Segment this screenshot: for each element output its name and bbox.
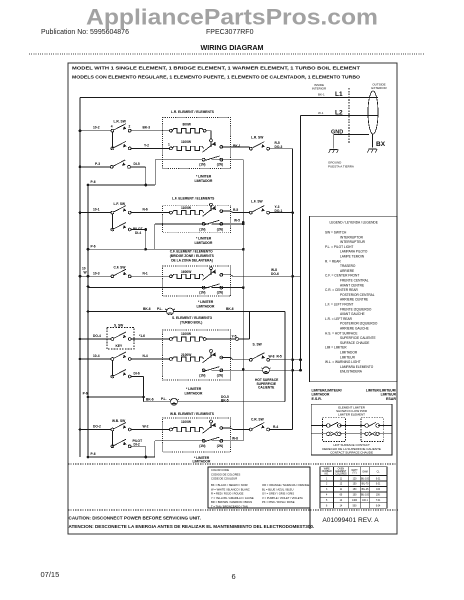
svg-text:INTERIOR: INTERIOR [312, 87, 327, 91]
terminal row1 right [203, 338, 206, 341]
svg-text:60: 60 [340, 495, 343, 497]
svg-text:LIMITADOR: LIMITADOR [197, 304, 215, 308]
svg-text:C.F. ELEMENT / ELEMENTO: C.F. ELEMENT / ELEMENTO [170, 249, 213, 253]
table column rules [334, 467, 370, 508]
terminal row1 [170, 275, 173, 278]
svg-text:W-2: W-2 [143, 425, 149, 429]
svg-text:BK = BLACK / NEGRO / NOIR: BK = BLACK / NEGRO / NOIR [211, 483, 248, 487]
svg-text:LIMITADOR: LIMITADOR [195, 179, 213, 183]
svg-text:5: 5 [326, 500, 328, 502]
svg-text:R-5: R-5 [277, 355, 282, 359]
svg-text:P-6: P-6 [91, 244, 96, 248]
svg-text:WIRING DIAGRAM: WIRING DIAGRAM [200, 43, 263, 52]
limiter L.F. [202, 203, 223, 225]
svg-text:N-4: N-4 [143, 354, 148, 358]
bus B P-6 vertical [87, 185, 89, 457]
svg-text:W.L. = WARNING LIGHT: W.L. = WARNING LIGHT [325, 360, 361, 364]
wire pilot row [144, 401, 286, 403]
svg-text:P.L. = PILOT LIGHT: P.L. = PILOT LIGHT [325, 245, 353, 249]
wire P-6 row [88, 248, 243, 250]
svg-text:CAUTION: DISCONNECT POWER BEFO: CAUTION: DISCONNECT POWER BEFORE SERVICI… [69, 516, 201, 521]
limiter sub-box right dashed [361, 418, 384, 442]
svg-text:14: 14 [340, 505, 343, 507]
svg-text:L.R. = LEFT REAR: L.R. = LEFT REAR [325, 317, 353, 321]
wire row3 [81, 166, 145, 168]
svg-text:(1N): (1N) [199, 228, 205, 232]
svg-text:500: 500 [353, 505, 358, 507]
svg-text:(2N): (2N) [217, 163, 223, 167]
switch pilot DI-5 [110, 160, 130, 168]
heating element 1600W [172, 274, 203, 278]
contact pair left bottom [327, 432, 341, 436]
svg-text:6: 6 [326, 505, 328, 507]
switch L.R. SW pole 2 [111, 141, 131, 149]
pilot light S. [169, 398, 178, 405]
switch L.F. SW [111, 206, 131, 214]
svg-text:CODIGO DE COLORES: CODIGO DE COLORES [211, 472, 240, 476]
svg-text:BK-6: BK-6 [226, 307, 234, 311]
SECTION: s5 [81, 412, 292, 464]
pilot light H.S. C.F. [165, 308, 174, 315]
svg-text:2: 2 [326, 484, 328, 486]
svg-text:100.1: 100.1 [362, 500, 368, 502]
bus limiter return vertical [242, 160, 244, 441]
svg-text:2100W: 2100W [181, 353, 192, 357]
SECTION: bottom [41, 508, 399, 581]
svg-text:SURFACE CHAUDE: SURFACE CHAUDE [340, 341, 369, 345]
svg-text:LIMITADOR: LIMITADOR [195, 241, 213, 245]
svg-text:BIL-70: BIL-70 [362, 484, 369, 486]
svg-text:COLOR CODE: COLOR CODE [211, 468, 229, 472]
wire row1 [81, 130, 169, 132]
svg-text:V = PURPLE / VIOLET / VIOLETA: V = PURPLE / VIOLET / VIOLETA [262, 496, 303, 500]
junction L2 bus H.S. row [299, 369, 302, 372]
wire top contact row [311, 425, 392, 427]
svg-text:OR = ORANGE / NARANJA / ORANGE: OR = ORANGE / NARANJA / ORANGE [262, 483, 309, 487]
svg-text:(2N): (2N) [217, 228, 223, 232]
svg-text:1100W: 1100W [181, 420, 192, 424]
wire limiter exit to bus [222, 275, 301, 277]
svg-text:W-1: W-1 [318, 111, 324, 115]
svg-text:*1-6: *1-6 [139, 334, 145, 338]
svg-text:BR = BROWN / MARRON / BRUN: BR = BROWN / MARRON / BRUN [211, 500, 252, 504]
svg-text:TRASERO: TRASERO [340, 264, 356, 268]
svg-text:12: 12 [340, 484, 343, 486]
SECTION: s4 [80, 312, 301, 406]
svg-text:7.01: 7.01 [376, 500, 381, 502]
bus A L1 vertical [79, 98, 81, 458]
svg-text:P-6: P-6 [91, 452, 96, 456]
heating element 2100W [172, 357, 203, 361]
svg-text:COLORES: COLORES [335, 473, 347, 475]
element box L.R. [163, 118, 231, 169]
svg-text:ENLISTADERA: ENLISTADERA [340, 370, 363, 374]
svg-text:MODEL WITH 1 SINGLE ELEMENT, 1: MODEL WITH 1 SINGLE ELEMENT, 1 BRIDGE EL… [72, 66, 360, 71]
svg-text:LIMITER ELEMENT: LIMITER ELEMENT [338, 413, 365, 417]
svg-text:GY = GREY / GRIS / GRIS: GY = GREY / GRIS / GRIS [262, 492, 294, 496]
svg-text:ARRIERE CENTRE: ARRIERE CENTRE [340, 298, 368, 302]
bus L.R. return vertical [292, 149, 294, 430]
svg-text:H.S. = HOT SURFACE: H.S. = HOT SURFACE [325, 331, 357, 335]
svg-text:1100W: 1100W [181, 206, 192, 210]
wire row1 into key [80, 338, 111, 340]
svg-text:A01099401 REV. A: A01099401 REV. A [322, 517, 379, 524]
svg-text:MODELS CON ELEMENTO REGULARE,: MODELS CON ELEMENTO REGULARE, 1 ELEMENTO… [72, 75, 361, 80]
terminal row1 [170, 211, 173, 214]
junction right bus [291, 275, 294, 278]
terminal row1 left [170, 129, 173, 132]
wire riser to pilot row [238, 312, 249, 340]
contact pair right top [365, 422, 380, 427]
svg-text:LIMITADOR: LIMITADOR [312, 392, 330, 396]
wire pilot row H.S. [88, 311, 285, 313]
svg-text:S. ELEMENT / ELEMENTO: S. ELEMENT / ELEMENTO [172, 316, 213, 320]
wire P-6 row [88, 456, 155, 458]
svg-text:R-4: R-4 [273, 425, 278, 429]
junction bus B node P-6 S4 [87, 396, 90, 399]
element box W.B. [163, 418, 231, 452]
switch L.F. right [249, 206, 269, 214]
svg-text:ATENCION: DESCONECTE LA ENERGI: ATENCION: DESCONECTE LA ENERGIA ANTES DE… [69, 524, 315, 529]
svg-text:R = RED / ROJO / ROUGE: R = RED / ROJO / ROUGE [211, 492, 244, 496]
wire limiter exit [222, 146, 250, 148]
svg-text:(2N): (2N) [217, 444, 223, 448]
svg-text:AppliancePartsPros.com: AppliancePartsPros.com [86, 5, 378, 30]
svg-text:BIL-100: BIL-100 [361, 478, 370, 480]
switch pilot DI-2 [111, 439, 131, 447]
svg-text:0.01: 0.01 [376, 484, 381, 486]
svg-text:LIMITEUR: LIMITEUR [381, 392, 397, 396]
junction L2 bus S. row [299, 358, 302, 361]
junction limiter bus S4 row [242, 368, 245, 371]
SECTION: limbox [311, 404, 392, 455]
svg-text:ARRIERE GAUCHE: ARRIERE GAUCHE [340, 327, 369, 331]
svg-text:EXTERIOR: EXTERIOR [371, 86, 387, 90]
svg-text:150: 150 [353, 484, 358, 486]
wire limiter bottom row [155, 159, 243, 161]
switch pilot DI-6 [111, 370, 131, 378]
pilot light H.S. [261, 367, 270, 374]
svg-text:100:: 100: [376, 495, 381, 497]
switch L.R. SW pole 1 [111, 124, 131, 132]
svg-text:DO-6: DO-6 [271, 272, 279, 276]
svg-text:BK-3: BK-3 [143, 126, 151, 130]
wire drop limiter return [154, 160, 156, 185]
junction bus B node P-6 S2 [87, 248, 90, 251]
junction bus A row W.B. [79, 428, 82, 431]
svg-text:100: 100 [353, 495, 358, 497]
svg-text:LIMITEUR: LIMITEUR [340, 355, 356, 359]
svg-text:N-6: N-6 [143, 208, 148, 212]
svg-text:L.F. SW: L.F. SW [251, 200, 263, 204]
wire pole link [111, 431, 113, 446]
wire limiter bottom row [155, 224, 244, 249]
heating element 800W [172, 129, 203, 133]
svg-text:INTERRUPTOR: INTERRUPTOR [340, 235, 364, 239]
svg-text:L.R. SW: L.R. SW [114, 120, 127, 124]
SECTION: buses [79, 98, 90, 459]
svg-text:W-5: W-5 [234, 218, 240, 222]
switch pilot DI-4 [111, 223, 131, 231]
wire row1 [81, 212, 169, 214]
SECTION: outerbox [68, 63, 397, 534]
wire row1 [81, 429, 169, 431]
table row rules [320, 476, 387, 503]
limiter L.R. [202, 139, 223, 161]
svg-text:LEGEND / LEYENDA / LEGENDE: LEGEND / LEYENDA / LEGENDE [330, 221, 378, 225]
junction [144, 184, 147, 187]
svg-text:LIMITADOR: LIMITADOR [185, 391, 203, 395]
svg-text:C.F. = CENTER FRONT: C.F. = CENTER FRONT [325, 274, 359, 278]
svg-text:KEY: KEY [116, 344, 124, 348]
wall boundary dashed line [348, 88, 350, 144]
wire to right bus [270, 148, 293, 150]
terminal row1 [170, 338, 173, 341]
svg-text:LIMITADOR: LIMITADOR [340, 351, 358, 355]
svg-text:3: 3 [326, 489, 328, 491]
switch key [111, 332, 131, 340]
separator dashed line [68, 463, 397, 465]
limiter C.F. [202, 267, 223, 289]
svg-text:FRENTE IZQUIERDO: FRENTE IZQUIERDO [340, 307, 372, 311]
svg-text:W: W [84, 271, 88, 275]
svg-text:W-8: W-8 [232, 437, 238, 441]
svg-text:T = TAN / BRONCEADO / TAN: T = TAN / BRONCEADO / TAN [211, 505, 248, 509]
svg-text:1400: 1400 [352, 500, 358, 502]
ground symbol (BX) [368, 149, 378, 152]
svg-text:1100W: 1100W [181, 140, 192, 144]
junction bus A row key [79, 338, 82, 341]
element box S. [163, 330, 231, 380]
junction [144, 456, 147, 459]
junction bus B node P-6 S1 [87, 184, 90, 187]
wire pilot to drop [131, 230, 146, 250]
svg-text:W.B. ELEMENT / ELEMENTS: W.B. ELEMENT / ELEMENTS [170, 412, 215, 416]
svg-text:0.01: 0.01 [376, 478, 381, 480]
wire P-6 tap [88, 396, 144, 398]
svg-text:L.F. = LEFT FRONT: L.F. = LEFT FRONT [325, 303, 353, 307]
svg-text:OHM: OHM [362, 472, 367, 474]
svg-text:INTERRUPTEUR: INTERRUPTEUR [340, 240, 366, 244]
wire GND [334, 135, 369, 149]
svg-text:POSTERIOR IZQUIERDO: POSTERIOR IZQUIERDO [340, 322, 378, 326]
switch L.R. right [249, 142, 269, 150]
svg-text:(TURBO BOIL): (TURBO BOIL) [180, 321, 202, 325]
svg-text:BX: BX [376, 141, 386, 148]
svg-text:BL = BLUE / AZUL / BLEU: BL = BLUE / AZUL / BLEU [262, 487, 293, 491]
svg-text:07/15: 07/15 [41, 570, 60, 579]
svg-text:FPEC3077RF0: FPEC3077RF0 [206, 29, 254, 36]
element limiter box [311, 404, 392, 455]
svg-text:11: 11 [340, 478, 343, 480]
terminal row1 right [203, 129, 206, 132]
element box C.F. [163, 266, 231, 296]
wire pilot to drop [131, 377, 143, 402]
junction return bus L.F. row [291, 211, 294, 214]
svg-text:C.F. SW: C.F. SW [114, 265, 127, 269]
svg-text:10-3: 10-3 [93, 271, 100, 275]
svg-text:10-1: 10-1 [93, 208, 100, 212]
wire limiter bottom row with H.S. pilot [202, 369, 300, 371]
svg-text:P.L.: P.L. [157, 307, 163, 311]
svg-text:LIM = LIMITER: LIM = LIMITER [325, 346, 347, 350]
wire key to element [131, 338, 169, 340]
SECTION: rightbus [242, 116, 302, 441]
wire row1 to limiter [206, 131, 211, 139]
SECTION: s3 [81, 249, 300, 401]
svg-text:6: 6 [232, 572, 236, 581]
wire to right bus [270, 429, 293, 431]
svg-text:150: 150 [353, 489, 358, 491]
junction bus A row DI-5 [79, 166, 82, 169]
wire row2 [81, 358, 169, 360]
svg-text:ESAR: ESAR [386, 397, 396, 401]
svg-text:POSTERIOR CENTRAL: POSTERIOR CENTRAL [340, 293, 375, 297]
svg-text:N-1: N-1 [143, 271, 148, 275]
wire limiter exit [222, 358, 250, 360]
junction limiter bus S2 row [242, 221, 245, 224]
svg-text:CALIENTE: CALIENTE [258, 386, 275, 390]
svg-text:BK-6: BK-6 [146, 397, 154, 401]
svg-text:AVANT CENTRE: AVANT CENTRE [340, 283, 364, 287]
element box L.F. [163, 205, 231, 232]
legend box [310, 216, 398, 381]
svg-text:100: 100 [376, 489, 381, 491]
wire BX drop [372, 134, 374, 148]
wire to right buses [270, 359, 301, 361]
heating element 1100W [172, 146, 203, 150]
wire pole link [111, 132, 113, 148]
svg-text:CONTACT SURFACE CHAUDE: CONTACT SURFACE CHAUDE [330, 451, 373, 455]
svg-text:L.R. SW: L.R. SW [251, 136, 264, 140]
svg-text:W.B. SW: W.B. SW [112, 419, 126, 423]
junction bus B pilot row C.F. [87, 310, 90, 313]
svg-text:DO-4: DO-4 [93, 334, 101, 338]
svg-text:(2N): (2N) [217, 290, 223, 294]
svg-text:Y = YELLOW / AMARILLO / JAUNE: Y = YELLOW / AMARILLO / JAUNE [211, 496, 254, 500]
switch C.R. right [249, 423, 269, 431]
svg-text:(1N): (1N) [199, 373, 205, 377]
limiter W.B. [202, 420, 223, 442]
limiter sub-box left dashed [323, 418, 346, 442]
switch S. SW row2 [111, 352, 131, 360]
svg-text:LAMPE TEMOIN: LAMPE TEMOIN [340, 255, 365, 259]
wire pole link [111, 360, 113, 376]
terminal row1 [170, 428, 173, 431]
conduit ellipse [368, 91, 378, 134]
svg-text:P-6: P-6 [91, 180, 96, 184]
svg-text:L.F. SW: L.F. SW [114, 202, 126, 206]
svg-text:Publication No: 5995604876: Publication No: 5995604876 [41, 29, 129, 36]
svg-text:ARRIERE: ARRIERE [340, 269, 354, 273]
svg-text:CODE DE COULEUR: CODE DE COULEUR [211, 477, 237, 481]
svg-text:1: 1 [168, 143, 170, 147]
svg-text:S. SW: S. SW [253, 343, 263, 347]
svg-text:DI-6: DI-6 [134, 372, 140, 376]
junction bus A row C.F. [79, 275, 82, 278]
heating element 1100W [172, 337, 203, 341]
wire row1 [81, 275, 169, 277]
svg-text:DI-5: DI-5 [134, 162, 140, 166]
svg-text:(BRIDGE ZONE / ELEMENTS: (BRIDGE ZONE / ELEMENTS [170, 254, 215, 258]
heating element 1100W [172, 211, 203, 215]
switch S. right [249, 353, 269, 361]
junction bus A row L.F. [79, 211, 82, 214]
svg-text:NO.: NO. [325, 473, 329, 475]
svg-text:(*Y): (*Y) [353, 473, 357, 475]
SECTION: power entry [80, 83, 387, 169]
svg-text:14: 14 [340, 500, 343, 502]
junction pilot drop P-6 S2 [144, 248, 147, 251]
svg-text:C.R. = CENTER REAR: C.R. = CENTER REAR [325, 288, 359, 292]
svg-text:(1N): (1N) [199, 290, 205, 294]
svg-text:SW = SWITCH: SW = SWITCH [325, 231, 347, 235]
wire pole link [111, 214, 113, 230]
junction [242, 248, 245, 251]
contact pair left top [327, 422, 342, 427]
junction [142, 396, 145, 399]
junction bus B row C.F. limiter [87, 285, 90, 288]
junction bus A row L.R. [79, 129, 82, 132]
svg-text:CL: CL [377, 472, 381, 474]
junction bus crossing [87, 275, 90, 278]
wire P-6 row [88, 184, 155, 186]
junction limiter bus S3 row [242, 286, 245, 289]
wire pilot to drop [131, 446, 146, 457]
svg-text:LIMITADOR: LIMITADOR [193, 459, 211, 463]
svg-text:4: 4 [326, 495, 328, 497]
svg-text:PK = PINK / ROSA / ROSE: PK = PINK / ROSA / ROSE [262, 500, 295, 504]
SECTION: s1 [81, 110, 292, 186]
terminal row2 left [170, 147, 173, 150]
svg-text:C.R. SW: C.R. SW [251, 417, 265, 421]
switch C.F. SW [111, 269, 131, 277]
element data table [320, 467, 387, 508]
svg-text:Y-2: Y-2 [144, 144, 149, 148]
wire limiter bottom row [155, 441, 244, 457]
limiter S. [202, 350, 223, 372]
svg-text:W-8: W-8 [269, 355, 275, 359]
wire L2 [301, 115, 379, 117]
svg-text:1: 1 [326, 478, 328, 480]
svg-text:800W: 800W [183, 122, 192, 126]
wire L1 [80, 97, 378, 99]
junction bus B node P-6 S5 [87, 456, 90, 459]
svg-text:BK-6: BK-6 [143, 307, 151, 311]
SECTION: colorbox [68, 464, 397, 509]
contact pair right bottom [365, 432, 379, 436]
heating element 1100W warmer [172, 427, 203, 431]
bottom separator dashed [68, 509, 398, 511]
svg-text:SUPERFICIE CALIENTE: SUPERFICIE CALIENTE [340, 336, 376, 340]
wire limiter exit [222, 211, 250, 213]
svg-text:R. = REAR: R. = REAR [325, 259, 341, 263]
svg-text:L1: L1 [335, 91, 343, 98]
svg-text:E.S.R.: E.S.R. [312, 397, 322, 401]
SECTION: table [320, 467, 387, 508]
svg-text:FRENTE CENTRAL: FRENTE CENTRAL [340, 279, 369, 283]
junction bus A row S. [79, 358, 82, 361]
svg-text:120: 120 [353, 478, 358, 480]
caution divider vertical [309, 508, 311, 529]
svg-text:4: 4 [111, 125, 113, 129]
wire bottom contact row [311, 433, 392, 435]
svg-text:1600W: 1600W [181, 270, 192, 274]
svg-text:P.L.: P.L. [161, 397, 167, 401]
svg-text:10-2: 10-2 [93, 126, 100, 130]
junction pilot wire S2 [144, 228, 147, 231]
svg-text:LAMPARA PILOTO: LAMPARA PILOTO [340, 250, 368, 254]
